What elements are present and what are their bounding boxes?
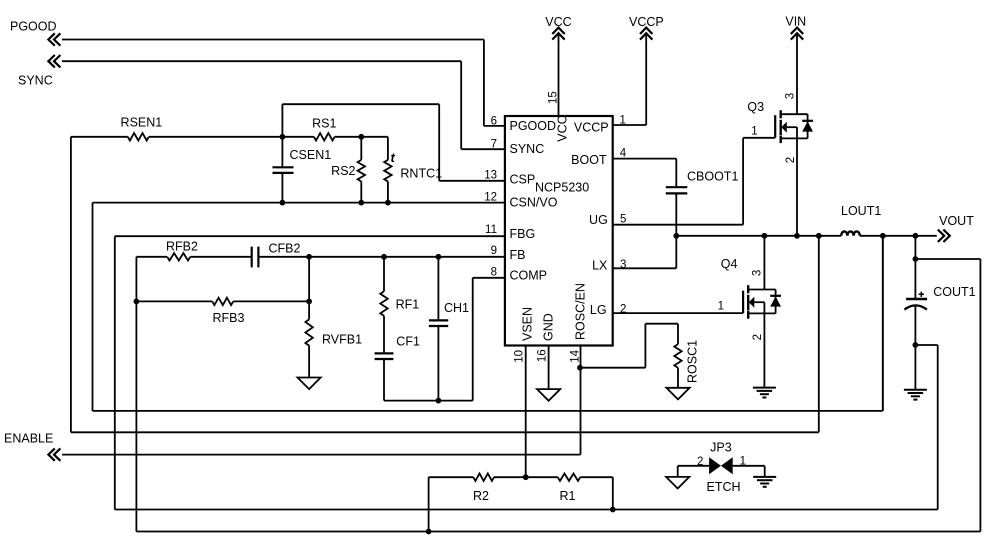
wire SYNC to pin 7 xyxy=(62,60,461,62)
svg-text:13: 13 xyxy=(484,170,497,182)
svg-text:PGOOD: PGOOD xyxy=(10,20,57,34)
svg-text:RFB2: RFB2 xyxy=(166,239,198,253)
capacitor CSEN1 xyxy=(281,137,283,168)
wire VCCP to pin 1 xyxy=(645,34,647,125)
svg-text:VSEN: VSEN xyxy=(521,307,535,341)
wire R1 to GND rail xyxy=(612,477,614,509)
power arrow VIN xyxy=(791,28,803,34)
ground Q4 source xyxy=(753,387,776,389)
node COUT1 top xyxy=(913,233,919,239)
svg-text:FBG: FBG xyxy=(510,227,536,241)
capacitor CH1 xyxy=(437,257,439,321)
svg-text:7: 7 xyxy=(491,139,497,151)
wire ENABLE to pin 14 xyxy=(62,454,581,456)
wire JP3 pin1 down xyxy=(764,466,766,477)
wire ROSC/EN pin 14 xyxy=(580,346,582,455)
ground COUT1 xyxy=(904,389,927,391)
wire LG to Q4 gate xyxy=(613,312,743,314)
wire R2 to VOUT rail xyxy=(428,477,430,531)
svg-text:PGOOD: PGOOD xyxy=(510,119,557,133)
resistor RFB2 xyxy=(136,256,167,258)
svg-text:UG: UG xyxy=(589,213,608,227)
svg-text:9: 9 xyxy=(491,245,497,257)
resistor RS2 xyxy=(360,137,362,160)
node SW sense xyxy=(816,233,822,239)
power arrow VCC xyxy=(552,28,564,34)
node RFB3 right xyxy=(306,299,312,305)
svg-text:CSN/VO: CSN/VO xyxy=(510,195,558,209)
svg-text:1: 1 xyxy=(718,301,724,313)
svg-text:VOUT: VOUT xyxy=(939,214,974,228)
node CSEN1 bottom xyxy=(280,200,286,206)
svg-text:2: 2 xyxy=(785,157,797,163)
wire UG to Q3 gate xyxy=(613,224,743,226)
power arrow VCCP xyxy=(640,28,652,34)
wire CSN/VO xyxy=(93,202,506,204)
wire CSP loop xyxy=(281,104,283,137)
ground RVFB1 xyxy=(298,378,321,390)
node COUT1 bottom xyxy=(913,342,919,348)
op-amp U1 NCP5230 body xyxy=(505,116,613,346)
svg-text:NCP5230: NCP5230 xyxy=(535,181,589,195)
svg-text:SYNC: SYNC xyxy=(18,74,53,88)
svg-text:11: 11 xyxy=(485,224,497,236)
svg-text:CFB2: CFB2 xyxy=(269,242,301,256)
svg-text:ENABLE: ENABLE xyxy=(4,432,53,446)
capacitor COUT1 xyxy=(906,298,927,300)
wire SW sense loop xyxy=(70,137,72,433)
svg-text:ROSC1: ROSC1 xyxy=(686,340,700,383)
node CSP junction xyxy=(280,134,286,140)
off-page arrow SYNC xyxy=(48,55,54,67)
node CH1 top xyxy=(436,254,442,260)
resistor RSEN1 xyxy=(71,136,128,138)
ground ROSC1 xyxy=(666,388,689,400)
resistor R2 xyxy=(429,476,474,478)
node Q3 source xyxy=(794,233,800,239)
svg-text:RSEN1: RSEN1 xyxy=(121,116,163,130)
svg-text:CF1: CF1 xyxy=(396,335,420,349)
wire VCC to pin 15 xyxy=(558,34,560,116)
inductor LOUT1 xyxy=(841,231,860,235)
node Q4 drain xyxy=(762,233,768,239)
svg-text:RF1: RF1 xyxy=(396,298,420,312)
svg-text:3: 3 xyxy=(785,93,797,99)
svg-text:15: 15 xyxy=(548,91,560,104)
svg-text:GND: GND xyxy=(542,313,556,341)
resistor ROSC1 xyxy=(677,324,679,345)
wire VOUT branch down xyxy=(882,236,884,411)
wire VOUT sense xyxy=(93,410,883,412)
wire ROSC1 jog xyxy=(580,367,645,369)
transistor Q4 xyxy=(742,291,744,313)
resistor RS1 xyxy=(314,133,335,140)
capacitor CF1 xyxy=(375,352,394,354)
svg-text:3: 3 xyxy=(752,270,764,276)
wire BOOT xyxy=(613,158,677,160)
svg-text:LG: LG xyxy=(590,303,607,317)
svg-text:CBOOT1: CBOOT1 xyxy=(687,170,738,184)
wire FBG xyxy=(115,235,505,237)
svg-text:VCCP: VCCP xyxy=(574,120,609,134)
svg-text:Q3: Q3 xyxy=(747,100,764,114)
svg-text:1: 1 xyxy=(620,114,626,126)
wire SW node xyxy=(676,235,841,237)
svg-text:JP3: JP3 xyxy=(710,440,732,454)
svg-text:1: 1 xyxy=(751,125,757,137)
node RFB2 junction xyxy=(306,254,312,260)
node CH1 bottom xyxy=(436,398,442,404)
ground GND pin xyxy=(537,389,560,401)
wire ground sense bottom xyxy=(115,509,938,511)
svg-text:LX: LX xyxy=(592,259,608,273)
svg-text:R2: R2 xyxy=(473,489,489,503)
node RFB3 left xyxy=(134,299,140,305)
svg-text:CSEN1: CSEN1 xyxy=(290,148,332,162)
node VOUT rail branch xyxy=(913,256,919,262)
svg-text:R1: R1 xyxy=(560,489,576,503)
svg-text:COUT1: COUT1 xyxy=(933,285,975,299)
off-page arrow VOUT xyxy=(943,230,949,242)
svg-text:6: 6 xyxy=(491,115,497,127)
svg-text:RS2: RS2 xyxy=(331,164,355,178)
svg-text:VIN: VIN xyxy=(785,15,806,29)
svg-text:CH1: CH1 xyxy=(444,301,469,315)
node RS1 right junction xyxy=(358,134,364,140)
node VOUT sense branch xyxy=(880,233,886,239)
wire PGOOD to pin 6 xyxy=(62,39,484,41)
node RNTC1 bottom xyxy=(385,200,391,206)
svg-text:ETCH: ETCH xyxy=(706,480,740,494)
capacitor CFB2 xyxy=(251,247,253,268)
svg-text:VCC: VCC xyxy=(555,115,569,141)
svg-text:COMP: COMP xyxy=(510,268,548,282)
svg-text:RVFB1: RVFB1 xyxy=(322,333,362,347)
resistor R1 xyxy=(526,476,558,478)
node pin14 junction xyxy=(577,365,583,371)
svg-text:3: 3 xyxy=(620,259,626,271)
capacitor CBOOT1 xyxy=(666,186,688,188)
svg-text:16: 16 xyxy=(536,349,548,362)
wire FB to VOUT xyxy=(135,257,137,532)
node R2 rail junction xyxy=(426,529,432,535)
ground JP3 pin1 xyxy=(753,476,776,478)
off-page arrow ENABLE xyxy=(48,448,54,460)
ground JP3 pin2 xyxy=(666,477,689,489)
resistor RFB3 xyxy=(136,300,212,302)
svg-text:t: t xyxy=(391,150,396,165)
wire LX xyxy=(613,267,677,269)
svg-text:2: 2 xyxy=(752,334,764,340)
node RF1 top xyxy=(381,254,387,260)
resistor RVFB1 xyxy=(308,257,310,320)
off-page arrow PGOOD xyxy=(48,33,54,45)
jumper JP3 xyxy=(678,465,709,467)
svg-text:LOUT1: LOUT1 xyxy=(841,204,881,218)
svg-text:BOOT: BOOT xyxy=(571,153,607,167)
wire GND pin 16 xyxy=(548,346,550,390)
transistor Q3 xyxy=(774,115,776,138)
svg-text:8: 8 xyxy=(491,266,497,278)
svg-text:SYNC: SYNC xyxy=(510,142,545,156)
thermistor RNTC1 xyxy=(387,137,389,160)
wire VOUT bottom rail xyxy=(136,531,980,533)
svg-text:RNTC1: RNTC1 xyxy=(400,167,442,181)
node SW CBOOT xyxy=(673,233,679,239)
wire VSEN pin 10 xyxy=(525,346,527,478)
svg-text:RFB3: RFB3 xyxy=(213,311,245,325)
svg-text:10: 10 xyxy=(514,350,526,363)
node RS2 bottom xyxy=(358,200,364,206)
resistor RF1 xyxy=(383,257,385,292)
node R1 rail junction xyxy=(610,507,616,513)
svg-text:FB: FB xyxy=(510,248,526,262)
wire COUT1 top xyxy=(914,236,916,299)
svg-text:CSP: CSP xyxy=(510,173,536,187)
wire COMP xyxy=(384,400,473,402)
svg-text:12: 12 xyxy=(484,192,497,204)
svg-text:Q4: Q4 xyxy=(721,257,738,271)
svg-text:RS1: RS1 xyxy=(312,116,336,130)
wire JP3 pin2 down xyxy=(677,466,679,477)
svg-text:ROSC/EN: ROSC/EN xyxy=(574,283,588,340)
node VSEN divider xyxy=(523,474,529,480)
wire VIN to Q3 drain xyxy=(796,34,798,114)
